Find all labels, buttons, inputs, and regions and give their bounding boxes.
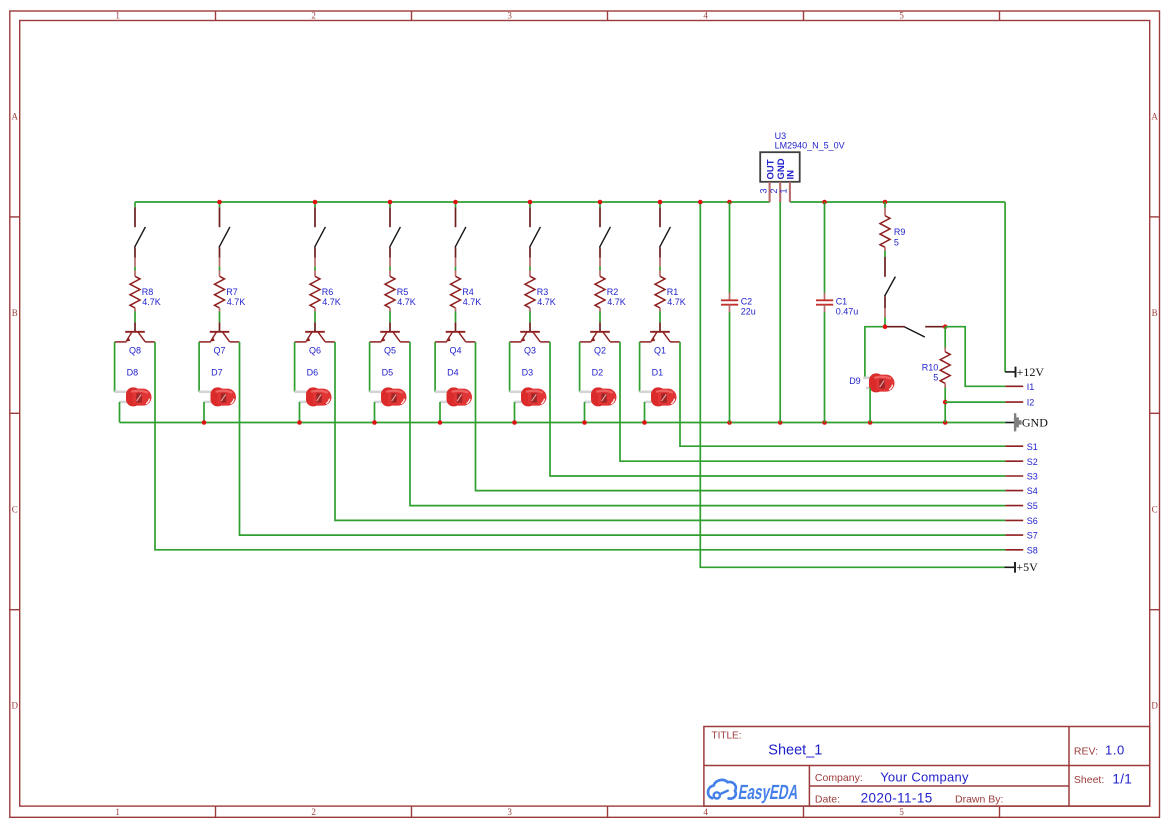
svg-text:22u: 22u [741, 307, 756, 317]
wire +5V vertical and run to flag [700, 202, 1004, 567]
capacitor C2 [721, 293, 738, 313]
svg-text:C: C [1152, 504, 1158, 514]
wire [884, 317, 886, 327]
svg-text:S3: S3 [1027, 472, 1038, 482]
LED D6 [294, 387, 331, 406]
svg-text:4.7K: 4.7K [463, 297, 482, 307]
switch SW3 [530, 207, 541, 267]
transistor Q1 [640, 322, 680, 342]
transistor Q7 [199, 322, 239, 342]
wire node to D9 branch [865, 327, 885, 377]
svg-text:4.7K: 4.7K [667, 297, 686, 307]
net label I2 [1005, 401, 1023, 403]
svg-text:B: B [1152, 308, 1158, 318]
wire [114, 342, 116, 392]
junction [943, 420, 948, 425]
capacitor C1 [816, 293, 833, 313]
wire [824, 202, 826, 293]
svg-text:R2: R2 [607, 287, 619, 297]
svg-text:U3: U3 [775, 131, 787, 141]
junction [453, 200, 458, 205]
svg-text:Date:: Date: [815, 793, 840, 805]
svg-text:D2: D2 [592, 368, 604, 378]
wire I1 run [945, 327, 1005, 387]
junction [598, 200, 603, 205]
wire [198, 342, 200, 392]
net label S5 [1005, 505, 1023, 507]
wire [439, 402, 441, 423]
svg-text:4.7K: 4.7K [227, 297, 246, 307]
svg-text:2020-11-15: 2020-11-15 [861, 791, 933, 806]
svg-text:2: 2 [311, 11, 316, 21]
wire [579, 342, 581, 392]
net flag +5V [1005, 562, 1016, 573]
wire [659, 311, 661, 322]
svg-text:I1: I1 [1027, 382, 1035, 392]
svg-text:R8: R8 [142, 287, 154, 297]
svg-text:A: A [1151, 112, 1158, 122]
wire [884, 251, 886, 257]
junction [582, 420, 587, 425]
switch SW4 [455, 207, 466, 267]
wire [584, 402, 586, 423]
transistor Q4 [435, 322, 475, 342]
svg-text:EasyEDA: EasyEDA [737, 780, 801, 803]
svg-text:D6: D6 [307, 368, 319, 378]
wire [389, 202, 391, 207]
svg-text:+5V: +5V [1016, 560, 1038, 574]
wire [134, 267, 136, 271]
wire [219, 267, 221, 271]
resistor R3 [525, 270, 535, 311]
wire [369, 342, 371, 392]
resistor R1 [655, 270, 665, 311]
wire S6 run [550, 342, 1005, 476]
svg-text:4.7K: 4.7K [607, 297, 626, 307]
wire [134, 202, 136, 207]
svg-text:D5: D5 [382, 368, 394, 378]
wire S5 run [476, 342, 1006, 491]
svg-text:5: 5 [899, 807, 904, 817]
transistor Q5 [370, 322, 410, 342]
wire [529, 202, 531, 207]
wire [389, 311, 391, 322]
svg-text:C1: C1 [836, 297, 848, 307]
svg-text:IN: IN [786, 170, 797, 180]
wire S3 run [335, 342, 1005, 521]
svg-text:4.7K: 4.7K [142, 297, 161, 307]
wire [434, 342, 436, 392]
net label S8 [1005, 549, 1023, 551]
switch SW1 [660, 207, 671, 267]
junction [943, 324, 948, 329]
junction [943, 400, 948, 405]
net label S6 [1005, 519, 1023, 521]
junction [658, 200, 663, 205]
junction [202, 420, 207, 425]
LED D9 [863, 373, 894, 392]
wire [203, 402, 205, 423]
svg-text:D7: D7 [211, 368, 223, 378]
svg-text:Q8: Q8 [129, 345, 141, 355]
wire [659, 202, 661, 207]
svg-text:+12V: +12V [1017, 365, 1045, 379]
svg-text:4.7K: 4.7K [537, 297, 556, 307]
wire [944, 387, 946, 422]
wire [134, 311, 136, 322]
junction [727, 200, 732, 205]
svg-text:Q7: Q7 [214, 345, 226, 355]
transistor Q6 [295, 322, 335, 342]
wire [514, 402, 516, 423]
svg-text:A: A [11, 112, 18, 122]
resistor R5 [385, 270, 395, 311]
wire [599, 202, 601, 207]
title block [704, 727, 1150, 807]
LED D1 [639, 387, 676, 406]
LED D4 [435, 387, 472, 406]
op-amp U3 LM2940_N_5_0V regulator [760, 152, 800, 202]
junction [778, 420, 783, 425]
svg-text:I2: I2 [1027, 398, 1035, 408]
wire [639, 342, 641, 392]
switch below R9 [885, 257, 896, 317]
svg-text:R6: R6 [322, 287, 334, 297]
svg-text:Sheet:: Sheet: [1074, 774, 1104, 786]
svg-text:1: 1 [779, 188, 789, 193]
svg-text:2: 2 [769, 188, 779, 193]
resistor R2 [595, 270, 605, 311]
net label I1 [1005, 385, 1023, 387]
svg-text:C2: C2 [741, 297, 753, 307]
svg-text:LM2940_N_5_0V: LM2940_N_5_0V [775, 141, 845, 151]
wire [529, 267, 531, 271]
wire [219, 311, 221, 322]
wire [824, 312, 826, 422]
wire D9 cathode to gnd [869, 388, 871, 423]
resistor R10 [940, 347, 950, 387]
LED D7 [199, 387, 236, 406]
svg-text:5: 5 [894, 237, 899, 247]
svg-text:OUT: OUT [765, 159, 776, 179]
switch SW5 [390, 207, 401, 267]
transistor Q3 [510, 322, 550, 342]
wire [374, 402, 376, 423]
wire [455, 267, 457, 271]
switch SW7 [219, 207, 230, 267]
wire [314, 267, 316, 271]
wire +12V drop [1004, 202, 1006, 372]
junction [822, 420, 827, 425]
svg-text:Q4: Q4 [450, 345, 462, 355]
junction [822, 200, 827, 205]
svg-text:1: 1 [115, 11, 120, 21]
junction [512, 420, 517, 425]
resistor R7 [215, 270, 225, 311]
wire [729, 202, 731, 293]
svg-text:S2: S2 [1027, 457, 1038, 467]
wire top bus left segment (+5V net) [135, 201, 770, 203]
svg-text:3: 3 [507, 11, 512, 21]
svg-text:R3: R3 [537, 287, 549, 297]
wire [294, 342, 296, 392]
junction [217, 200, 222, 205]
wire [219, 202, 221, 207]
switch SW6 [315, 207, 326, 267]
wire I2 run [945, 401, 1005, 403]
svg-text:GND: GND [1022, 416, 1048, 430]
svg-text:4.7K: 4.7K [397, 297, 416, 307]
svg-text:2: 2 [311, 807, 316, 817]
svg-text:3: 3 [758, 188, 768, 193]
svg-text:Q1: Q1 [654, 345, 666, 355]
svg-text:REV:: REV: [1074, 745, 1098, 757]
wire S4 run [410, 342, 1005, 506]
resistor R9 [880, 208, 890, 252]
junction [438, 420, 443, 425]
wire S7 run [620, 342, 1005, 461]
junction [883, 200, 888, 205]
junction [313, 200, 318, 205]
svg-text:R1: R1 [667, 287, 679, 297]
svg-text:5: 5 [933, 372, 938, 382]
svg-text:4.7K: 4.7K [322, 297, 341, 307]
transistor Q2 [580, 322, 620, 342]
svg-text:Q2: Q2 [594, 345, 606, 355]
junction [868, 420, 873, 425]
svg-text:Q3: Q3 [524, 345, 536, 355]
svg-text:R4: R4 [462, 287, 474, 297]
net flag +12V [1005, 367, 1015, 378]
wire [299, 402, 301, 423]
EasyEDA logo [708, 780, 736, 799]
wire [599, 311, 601, 322]
svg-text:Your Company: Your Company [880, 770, 969, 785]
net label S3 [1005, 475, 1023, 477]
svg-text:D9: D9 [849, 376, 861, 386]
junction [297, 420, 302, 425]
net label S1 [1005, 445, 1023, 447]
wire [644, 402, 646, 423]
junction [642, 420, 647, 425]
svg-text:S7: S7 [1027, 531, 1038, 541]
LED D3 [509, 387, 546, 406]
wire [729, 312, 731, 422]
wire [884, 202, 886, 208]
transistor Q8 [115, 322, 155, 342]
svg-text:4: 4 [703, 807, 708, 817]
resistor R4 [451, 270, 461, 311]
junction [528, 200, 533, 205]
net label S7 [1005, 534, 1023, 536]
svg-text:Sheet_1: Sheet_1 [768, 742, 822, 758]
svg-text:S8: S8 [1027, 545, 1038, 555]
svg-text:R10: R10 [922, 362, 939, 372]
net label S2 [1005, 460, 1023, 462]
wire [944, 327, 946, 348]
wire [529, 311, 531, 322]
wire S2 run [240, 342, 1006, 535]
switch SW2 [600, 207, 611, 267]
svg-text:D8: D8 [127, 368, 139, 378]
wire [314, 202, 316, 207]
LED D5 [369, 387, 406, 406]
svg-text:S1: S1 [1027, 442, 1038, 452]
svg-text:Drawn By:: Drawn By: [955, 793, 1003, 805]
svg-text:Q5: Q5 [384, 345, 396, 355]
wire [455, 202, 457, 207]
svg-text:Q6: Q6 [309, 345, 321, 355]
svg-text:1.0: 1.0 [1105, 743, 1125, 758]
wire top bus right segment (+12V net) [790, 201, 1005, 203]
resistor R8 [130, 270, 140, 311]
resistor R6 [310, 270, 320, 311]
junction [372, 420, 377, 425]
wire [509, 342, 511, 392]
svg-text:D1: D1 [652, 368, 664, 378]
svg-text:C: C [12, 504, 18, 514]
junction [388, 200, 393, 205]
junction [698, 200, 703, 205]
svg-text:S6: S6 [1027, 516, 1038, 526]
svg-text:D: D [1151, 701, 1158, 711]
junction [727, 420, 732, 425]
wire [314, 311, 316, 322]
svg-text:D4: D4 [447, 368, 459, 378]
wire U3 GND pin to ground bus [779, 202, 781, 423]
svg-text:1: 1 [115, 807, 120, 817]
LED D8 [114, 387, 151, 406]
junction [883, 324, 888, 329]
svg-text:4: 4 [703, 11, 708, 21]
svg-text:5: 5 [899, 11, 904, 21]
wire S1 run [155, 342, 1005, 550]
net flag GND [1005, 413, 1021, 431]
wire [455, 311, 457, 322]
svg-text:R9: R9 [894, 227, 906, 237]
svg-text:3: 3 [507, 807, 512, 817]
switch SW8 [135, 207, 146, 267]
svg-text:B: B [12, 308, 18, 318]
wire GND bus [120, 422, 1006, 424]
svg-text:1/1: 1/1 [1112, 771, 1132, 786]
wire S8 run [680, 342, 1005, 446]
svg-text:R5: R5 [397, 287, 409, 297]
wire [659, 267, 661, 271]
LED D2 [579, 387, 616, 406]
net label S4 [1005, 490, 1023, 492]
svg-text:R7: R7 [226, 287, 238, 297]
wire [119, 402, 121, 423]
svg-text:0.47u: 0.47u [836, 307, 859, 317]
wire [599, 267, 601, 271]
svg-text:S5: S5 [1027, 501, 1038, 511]
wire [389, 267, 391, 271]
svg-text:S4: S4 [1027, 486, 1038, 496]
svg-text:Company:: Company: [815, 772, 863, 784]
horizontal switch [887, 327, 946, 337]
svg-text:D: D [11, 701, 18, 711]
svg-text:TITLE:: TITLE: [712, 731, 742, 742]
svg-text:D3: D3 [522, 368, 534, 378]
